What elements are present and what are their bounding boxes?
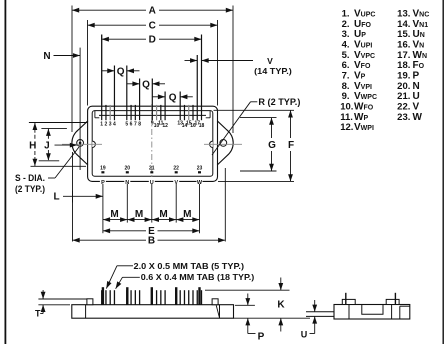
dimension U flange lines (306, 312, 334, 317)
svg-text:U: U (301, 329, 308, 339)
left mounting hole S (77, 140, 84, 147)
dimension C (88, 20, 218, 106)
end view seam lines (348, 305, 350, 320)
page right border (442, 0, 444, 344)
svg-text:5: 5 (125, 121, 128, 127)
end view left pin (345, 293, 347, 305)
dimension D (102, 34, 202, 105)
right mounting ear (217, 121, 233, 165)
page left border (4, 0, 6, 344)
svg-text:T: T (35, 309, 41, 319)
callout 0.6x0.4 tab (116, 272, 255, 289)
svg-text:A: A (149, 6, 156, 17)
side view signal pins (101, 290, 202, 305)
svg-text:8: 8 (138, 121, 141, 127)
left hole centerline (62, 143, 102, 145)
svg-text:H: H (29, 140, 36, 151)
svg-text:J: J (44, 140, 50, 151)
bottom pin letters P N U V W (100, 179, 203, 186)
svg-text:0.6 X 0.4 MM TAB (18 TYP.): 0.6 X 0.4 MM TAB (18 TYP.) (141, 272, 255, 282)
svg-text:15.: 15. (397, 29, 410, 40)
svg-text:18: 18 (199, 123, 205, 129)
dimension M chain (103, 209, 200, 220)
svg-text:N: N (43, 51, 50, 62)
end view right pin (394, 293, 396, 305)
svg-text:6: 6 (130, 121, 133, 127)
svg-text:F: F (288, 140, 294, 151)
svg-text:M: M (183, 209, 191, 220)
dimension G (240, 118, 277, 171)
end view right top tab (386, 299, 399, 304)
svg-text:12: 12 (162, 123, 168, 129)
svg-text:19: 19 (100, 166, 106, 172)
top pin numbers (100, 120, 204, 129)
svg-text:(14 TYP.): (14 TYP.) (254, 66, 292, 76)
dimension H (29, 123, 88, 167)
svg-text:2.0 X 0.5 MM TAB (5 TYP.): 2.0 X 0.5 MM TAB (5 TYP.) (134, 261, 245, 271)
dimension S leader (15, 147, 79, 194)
side view seam right (219, 305, 221, 319)
svg-text:W: W (413, 112, 423, 123)
dimension Q3 (153, 92, 193, 103)
svg-text:1: 1 (100, 121, 103, 127)
vertical centerline (151, 104, 153, 181)
left mounting ear (72, 121, 88, 165)
svg-text:2: 2 (105, 121, 108, 127)
dimension R leader (212, 97, 300, 155)
svg-text:D: D (149, 35, 156, 46)
side view right slant (216, 305, 219, 318)
svg-text:21: 21 (149, 166, 155, 172)
svg-text:Q: Q (169, 92, 177, 103)
dimension Q1 (102, 66, 140, 77)
end view body (334, 305, 410, 320)
dimension T (35, 290, 87, 319)
svg-text:23.: 23. (397, 112, 410, 123)
dimension N (43, 48, 80, 170)
side view case body (72, 305, 234, 319)
side view power pins (102, 287, 201, 305)
callout 2.0x0.5 tab (106, 261, 244, 289)
side view right ear tab (212, 299, 218, 305)
end view inner recess (362, 305, 383, 315)
right hole centerline (204, 143, 242, 145)
right mounting hole S (220, 140, 227, 147)
svg-text:B: B (148, 236, 155, 247)
dimension Q2 (127, 79, 165, 90)
svg-text:N: N (413, 81, 420, 92)
svg-text:4: 4 (113, 121, 116, 127)
dimension P (235, 294, 265, 343)
svg-text:12.: 12. (340, 122, 353, 133)
end view left top tab (342, 299, 355, 304)
svg-text:G: G (268, 140, 276, 151)
svg-text:M: M (159, 209, 167, 220)
svg-text:7: 7 (134, 121, 137, 127)
svg-text:20: 20 (125, 166, 131, 172)
module body outline (top view) (88, 106, 218, 181)
svg-text:22: 22 (173, 166, 179, 172)
svg-text:8.: 8. (342, 81, 350, 92)
svg-text:Q: Q (142, 79, 150, 90)
right side notch (210, 141, 213, 147)
svg-text:V: V (267, 56, 273, 66)
svg-text:S - DIA.: S - DIA. (15, 173, 45, 183)
pin name list (340, 9, 429, 134)
dimension A (72, 5, 233, 134)
inner corner step left (94, 111, 96, 118)
svg-text:L: L (53, 192, 59, 203)
dimension V (pin pitch) (185, 56, 293, 76)
inner corner step right (209, 111, 211, 118)
top pin ticks 1-18 (102, 35, 202, 121)
svg-text:P: P (258, 331, 265, 342)
bottom pin pads 19-23 (101, 171, 201, 173)
svg-text:Q: Q (117, 66, 125, 77)
svg-text:K: K (277, 300, 285, 311)
svg-text:C: C (149, 21, 156, 32)
svg-text:3.: 3. (342, 29, 350, 40)
bottom pin extension lines (103, 184, 200, 233)
side view left ear tab (87, 299, 93, 305)
svg-text:23: 23 (197, 166, 203, 172)
svg-text:20.: 20. (397, 81, 410, 92)
side view seam left (85, 305, 87, 319)
dimension J (39, 128, 77, 160)
dimension L (53, 191, 102, 203)
dimension B (73, 152, 226, 247)
dimension K (205, 278, 310, 332)
dimension E (103, 225, 200, 237)
svg-text:R (2 TYP.): R (2 TYP.) (258, 97, 300, 107)
end view right step (400, 306, 410, 319)
dimension U (301, 300, 315, 339)
module inner cover outline (92, 111, 213, 177)
svg-text:(2 TYP.): (2 TYP.) (15, 184, 45, 194)
bottom pin numbers 19-23 (100, 166, 202, 172)
left side notch (92, 141, 95, 147)
svg-text:M: M (110, 209, 118, 220)
svg-text:M: M (135, 209, 143, 220)
svg-text:3: 3 (109, 121, 112, 127)
dimension F (214, 110, 295, 181)
